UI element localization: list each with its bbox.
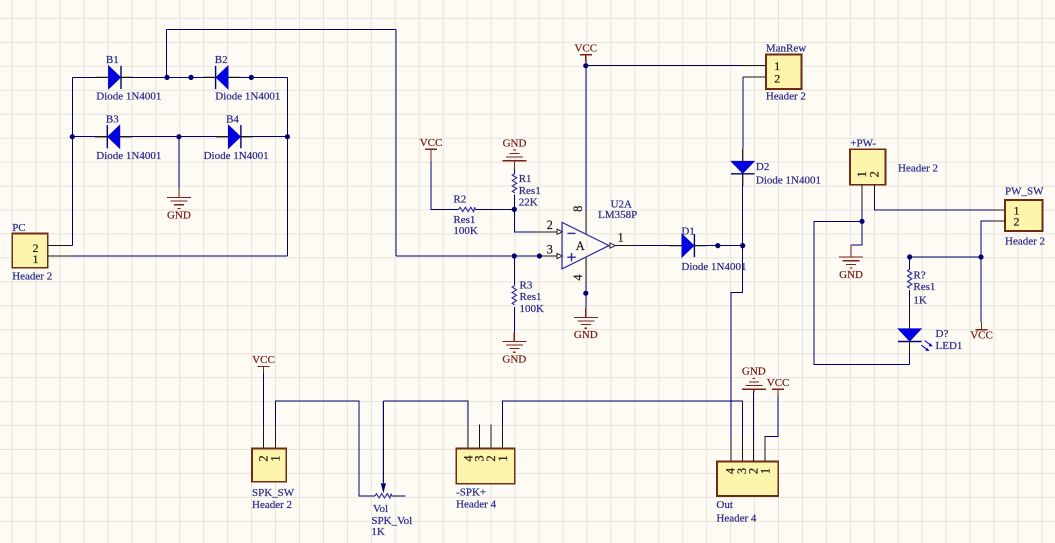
svg-text:1: 1 — [269, 455, 283, 461]
connector PW_SW Header 2 — [1005, 200, 1043, 231]
wire D2 node down to Out pin4 — [731, 246, 743, 437]
wire bridge row2 (B3-B4) — [72, 136, 287, 138]
wire VCC stem to junction — [585, 62, 587, 66]
wire op-amp pin3 net — [396, 255, 538, 257]
connector -SPK+ Header 4 — [456, 449, 515, 484]
power VCC top — [574, 43, 597, 63]
wire pin2 stub of -SPK+ — [490, 424, 492, 448]
svg-text:VCC: VCC — [767, 377, 790, 389]
svg-text:3: 3 — [547, 242, 553, 256]
wire junction left to LED loop — [814, 221, 910, 364]
node +PW- pin1 junction — [859, 219, 864, 224]
connector +PW- Header 2 — [850, 149, 885, 185]
resistor R? — [908, 269, 936, 306]
svg-text:R1: R1 — [519, 173, 532, 185]
op-amp plus input sign — [567, 253, 575, 261]
connector ManRew Header 2 — [766, 55, 802, 90]
node junction row2 left — [70, 134, 75, 139]
svg-text:100K: 100K — [453, 225, 478, 237]
diode D2 — [731, 149, 821, 187]
svg-text:2: 2 — [868, 171, 882, 177]
svg-text:-SPK+: -SPK+ — [456, 487, 486, 499]
svg-text:Diode 1N4001: Diode 1N4001 — [681, 261, 746, 273]
node junction row1 mid — [188, 75, 193, 80]
power VCC at R2 — [420, 137, 443, 162]
svg-text:GND: GND — [839, 269, 863, 281]
diode B2 — [203, 54, 280, 102]
svg-text:1K: 1K — [913, 294, 927, 306]
wire pin3 stub of -SPK+ — [478, 424, 480, 448]
wire Out pin1 to VCC — [765, 396, 778, 438]
svg-text:Res1: Res1 — [520, 291, 542, 303]
svg-text:R3: R3 — [520, 280, 533, 292]
ground GND above R1 — [503, 138, 527, 170]
wire LED to bottom loop — [909, 353, 911, 364]
svg-text:100K: 100K — [520, 303, 545, 315]
wire bridge row1 (B1-B2) — [72, 76, 287, 78]
svg-text:B4: B4 — [226, 114, 239, 126]
potentiometer Vol SPK_Vol — [371, 401, 412, 538]
wire top net B1B2-to-opamp+ horizontal — [166, 28, 396, 30]
wire junction to R? — [910, 256, 981, 258]
svg-text:LED1: LED1 — [936, 340, 963, 352]
wire +PW- pin2 to PW_SW pin1 — [874, 200, 993, 210]
node VCC-ManRew junction — [583, 63, 588, 68]
wire R3 top — [513, 256, 515, 286]
ground GND below R3 — [502, 332, 526, 365]
svg-text:1K: 1K — [371, 526, 385, 538]
wire pin 2 stub of U2A — [538, 231, 557, 233]
wire +PW- pin1 to junction — [861, 209, 863, 222]
svg-text:Header 4: Header 4 — [716, 513, 757, 525]
svg-text:R2: R2 — [453, 194, 466, 206]
svg-text:GND: GND — [503, 138, 527, 150]
wire pin2 stub of SPK_SW — [263, 424, 265, 448]
wire pin1 stub of Out — [764, 437, 766, 462]
wire pin1 stub of ManRew — [742, 65, 766, 67]
wire D1 to D2 node — [706, 245, 742, 247]
wire pin 3 stub of U2A — [538, 255, 557, 257]
svg-text:Diode 1N4001: Diode 1N4001 — [204, 150, 269, 162]
svg-text:Diode 1N4001: Diode 1N4001 — [96, 91, 161, 103]
node junction pin3 second — [537, 253, 542, 258]
wire pin2 stub of PW_SW — [993, 220, 1005, 222]
wire R? top lead — [909, 257, 911, 270]
svg-text:2: 2 — [547, 218, 553, 232]
wire wiper to -SPK+ pin4 — [383, 401, 468, 425]
diode B3 — [95, 114, 161, 163]
wire -SPK+ pin1 to Out pin3 — [503, 401, 743, 437]
svg-text:Diode 1N4001: Diode 1N4001 — [96, 150, 161, 162]
resistor R2 — [453, 194, 478, 238]
svg-text:Header 2: Header 2 — [252, 499, 292, 511]
wire pin 4 stub of U2A — [585, 257, 587, 283]
pin 1 output marker of U2A — [610, 243, 615, 248]
svg-text:Header 2: Header 2 — [12, 271, 52, 283]
wire R1 to junction — [514, 195, 516, 210]
svg-text:Header 2: Header 2 — [1005, 236, 1045, 248]
node junction row2 gnd — [176, 134, 181, 139]
svg-text:Header 4: Header 4 — [456, 499, 497, 511]
node pin4 junction — [583, 291, 588, 296]
pin 3 input marker of U2A — [557, 253, 562, 258]
connector SPK_SW Header 2 — [252, 449, 286, 482]
wire GND stem from bridge row2 — [178, 137, 180, 189]
wire R3 to GND — [513, 307, 515, 332]
svg-text:B1: B1 — [106, 54, 119, 66]
svg-text:Header 2: Header 2 — [766, 91, 806, 103]
ground GND at +PW- — [839, 245, 863, 281]
svg-text:2: 2 — [1014, 214, 1020, 228]
svg-text:B2: B2 — [215, 54, 228, 66]
node junction pin3-R3 — [512, 253, 517, 258]
wire LED cathode lead — [909, 342, 911, 353]
wire pin4 stub of -SPK+ — [467, 424, 469, 448]
svg-text:D1: D1 — [681, 226, 694, 238]
svg-text:1: 1 — [496, 455, 510, 461]
diode D1 — [670, 226, 747, 273]
svg-text:Diode 1N4001: Diode 1N4001 — [215, 91, 280, 103]
power VCC at SPK_SW — [252, 354, 275, 373]
wire PW_SW pin2 to VCC — [981, 221, 993, 322]
wire pin2 stub of PC — [48, 244, 73, 246]
node PW_SW-R junction — [978, 254, 983, 259]
svg-text:PC: PC — [12, 222, 25, 234]
svg-text:VCC: VCC — [970, 330, 993, 342]
wire pin1 stub of PW_SW — [993, 209, 1005, 211]
wire VCC junction to ManRew pin1 — [586, 65, 742, 67]
wire D2 to junction — [742, 186, 744, 246]
svg-text:R?: R? — [913, 269, 925, 281]
wire pin4 stub of Out — [730, 437, 732, 462]
node D1-D2 junction — [740, 243, 745, 248]
diode B4 — [204, 114, 269, 163]
wire riser from top net down to B1-B2 row — [165, 29, 167, 77]
wire pin2 stub of ManRew — [743, 76, 766, 78]
wire VCC to R2 — [431, 162, 459, 210]
wire R? to LED — [909, 290, 911, 302]
svg-text:GND: GND — [167, 210, 191, 222]
wire GND to R1 — [514, 169, 516, 174]
wire pin1 stub of SPK_SW — [275, 424, 277, 448]
svg-text:Res1: Res1 — [519, 185, 541, 197]
svg-text:Vol: Vol — [373, 503, 388, 515]
resistor R3 — [512, 280, 544, 315]
svg-text:D?: D? — [936, 328, 949, 340]
wire SPK_SW pin1 up-right — [276, 401, 376, 496]
wire junction to GND jog — [851, 221, 862, 245]
wire R2 to junction — [475, 208, 514, 210]
ground GND bridge — [167, 188, 191, 221]
wire pin3 stub of Out — [741, 437, 743, 462]
wire op-amp output to D1 — [635, 245, 670, 247]
svg-text:B3: B3 — [106, 114, 119, 126]
connector Out Header 4 — [717, 462, 778, 497]
ground GND op-amp pin4 — [574, 308, 598, 341]
wire Out pin2 to GND — [753, 393, 755, 438]
node junction row1 right of B2 — [249, 75, 254, 80]
wire pin 8 stub of U2A — [585, 211, 587, 234]
svg-text:ManRew: ManRew — [766, 43, 806, 55]
svg-text:VCC: VCC — [252, 354, 275, 366]
connector PC Header 2 — [12, 234, 48, 268]
svg-text:VCC: VCC — [574, 43, 597, 55]
ground GND at Out — [742, 365, 766, 392]
LED D? — [898, 328, 962, 352]
diode B1 — [96, 54, 161, 102]
node junction row2 right — [285, 134, 290, 139]
svg-text:4: 4 — [571, 274, 585, 281]
resistor R1 — [512, 173, 540, 209]
node R1-R2 junction — [512, 207, 517, 212]
node R? top junction — [907, 254, 912, 259]
wire pin4 to gnd dot — [585, 283, 587, 308]
wire riser from top net down to op-amp pin3 row — [395, 29, 397, 256]
power VCC below PW_SW — [970, 322, 993, 342]
svg-text:Res1: Res1 — [913, 281, 935, 293]
svg-text:8: 8 — [571, 206, 585, 212]
op-amp U2A triangle — [562, 222, 609, 269]
svg-text:2: 2 — [774, 71, 780, 85]
wire pin2 stub of +PW- — [873, 185, 875, 200]
svg-text:GND: GND — [574, 329, 598, 341]
svg-text:1: 1 — [759, 468, 773, 474]
node D1 output junction a — [715, 243, 720, 248]
svg-text:1: 1 — [33, 252, 39, 266]
wire junction to op-amp pin2 — [514, 209, 538, 231]
wire PC pin1 long horizontal — [48, 255, 288, 257]
wire right riser PC pin1 net — [286, 77, 288, 256]
node junction row1 riser — [164, 75, 169, 80]
wire pin1 stub of -SPK+ — [502, 424, 504, 448]
wire left riser PC pin2 to row1 — [71, 77, 73, 245]
svg-text:A: A — [576, 239, 585, 253]
svg-text:Diode 1N4001: Diode 1N4001 — [756, 175, 821, 187]
svg-text:D2: D2 — [756, 161, 769, 173]
svg-text:22K: 22K — [519, 197, 538, 209]
wire VCC net to op-amp pin8 — [585, 66, 587, 211]
svg-text:GND: GND — [742, 365, 766, 377]
svg-text:Res1: Res1 — [453, 214, 475, 226]
svg-text:PW_SW: PW_SW — [1005, 186, 1044, 198]
wire pin1 stub of +PW- — [861, 185, 863, 209]
svg-text:+PW-: +PW- — [850, 138, 876, 150]
svg-text:Out: Out — [716, 499, 733, 511]
wire LED anode lead — [909, 302, 911, 329]
wire ManRew pin2 to D2 — [742, 77, 744, 149]
op-amp minus input sign — [568, 232, 576, 234]
svg-text:VCC: VCC — [420, 137, 443, 149]
wire pot right lead — [392, 495, 406, 497]
wire pin 1 stub of U2A — [616, 245, 635, 247]
wire pin1 stub of PC — [48, 255, 72, 257]
svg-text:Header 2: Header 2 — [898, 162, 938, 174]
svg-text:GND: GND — [502, 353, 526, 365]
svg-text:1: 1 — [617, 230, 623, 244]
wire pin2 stub of Out — [753, 437, 755, 462]
pin 2 input marker of U2A — [557, 229, 562, 234]
power VCC at Out — [767, 377, 790, 396]
svg-text:LM358P: LM358P — [598, 209, 637, 221]
wire VCC to SPK_SW pin2 — [263, 373, 265, 424]
svg-text:SPK_SW: SPK_SW — [252, 487, 295, 499]
